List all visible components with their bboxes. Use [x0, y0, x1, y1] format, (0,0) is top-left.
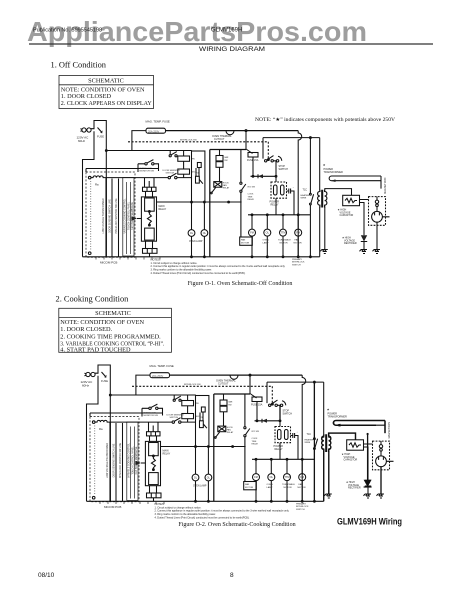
schematic note box 1	[59, 76, 154, 109]
svg-text:Publication No. 5995545198: Publication No. 5995545198	[33, 28, 102, 34]
energized diode D2	[364, 480, 372, 487]
svg-text:SCHEMATIC: SCHEMATIC	[95, 310, 131, 317]
svg-text:2. COOKING TIME PROGRAMMED.: 2. COOKING TIME PROGRAMMED.	[60, 333, 161, 340]
svg-text:1. DOOR CLOSED: 1. DOOR CLOSED	[61, 93, 112, 100]
energized cap feed wire	[329, 433, 356, 440]
svg-text:2. Cooking Condition: 2. Cooking Condition	[56, 294, 130, 303]
svg-text:GLMV169H: GLMV169H	[211, 28, 242, 34]
svg-text:GLMV169H Wiring: GLMV169H Wiring	[337, 517, 402, 527]
header rule	[29, 43, 433, 45]
energized transformer coils	[322, 435, 324, 452]
schematic note box 2	[59, 308, 172, 352]
energized interlock path	[280, 382, 314, 501]
svg-text:4. START PAD TOUCHED: 4. START PAD TOUCHED	[60, 347, 131, 354]
svg-text:08/10: 08/10	[38, 572, 55, 579]
svg-text:1. DOOR CLOSED.: 1. DOOR CLOSED.	[60, 326, 112, 333]
svg-text:NOTE: “★” indicates components: NOTE: “★” indicates components with pote…	[255, 117, 395, 123]
energized transformer legs	[324, 451, 329, 501]
junction node	[367, 433, 369, 435]
svg-text:2. CLOCK APPEARS ON DISPLAY: 2. CLOCK APPEARS ON DISPLAY	[61, 100, 152, 107]
svg-text:Figure O-2. Oven Schematic-Coo: Figure O-2. Oven Schematic-Cooking Condi…	[178, 522, 295, 528]
oven schematic off condition	[77, 120, 390, 276]
energized diode branch	[368, 434, 381, 494]
svg-text:Figure O-1. Oven Schematic-Off: Figure O-1. Oven Schematic-Off Condition	[188, 280, 293, 287]
svg-text:SCHEMATIC: SCHEMATIC	[88, 77, 124, 84]
oven schematic cooking condition	[81, 364, 394, 520]
svg-text:1. Off Condition: 1. Off Condition	[51, 60, 107, 69]
svg-text:WIRING DIAGRAM: WIRING DIAGRAM	[199, 46, 265, 53]
energized secondary loop wire	[334, 421, 385, 434]
svg-text:8: 8	[230, 572, 234, 579]
